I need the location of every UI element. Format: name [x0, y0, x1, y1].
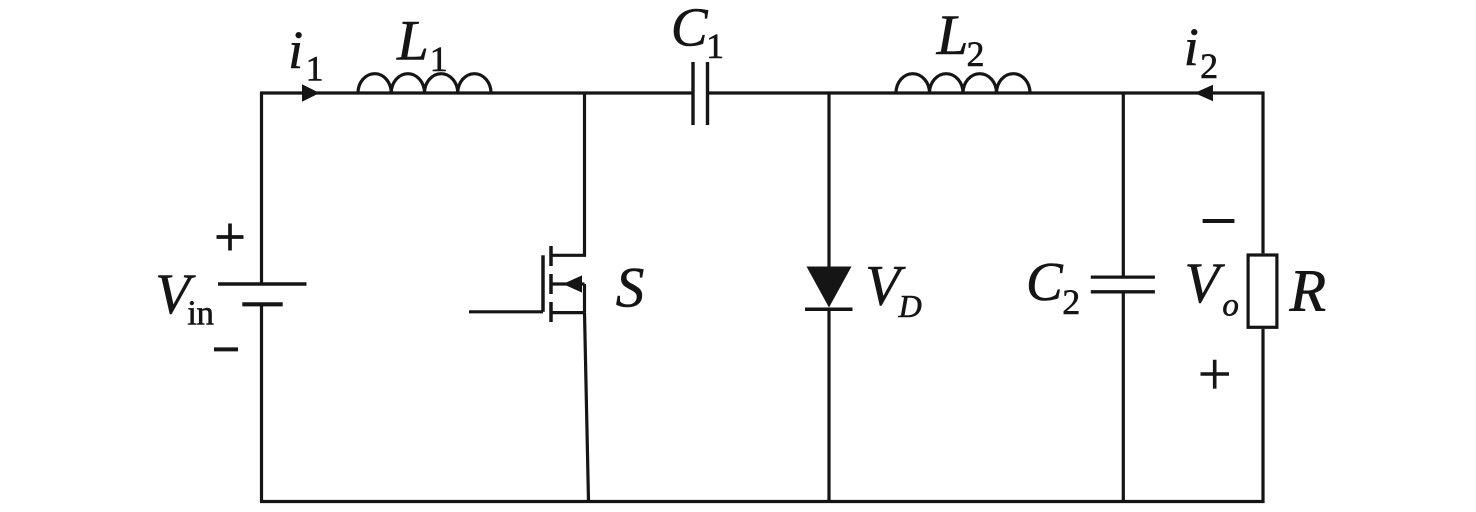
inductor L2 [896, 74, 1030, 93]
capacitor C2 bottom plate [1091, 290, 1155, 293]
svg-text:S: S [616, 257, 645, 320]
capacitor C2 top plate [1091, 275, 1155, 278]
wire diode cathode lead [827, 309, 830, 501]
svg-text:D: D [898, 288, 922, 324]
svg-text:i: i [1184, 17, 1199, 77]
capacitor C1 left plate [691, 62, 694, 125]
diode VD cathode bar [805, 308, 853, 312]
svg-text:2: 2 [1062, 282, 1080, 322]
svg-text:C: C [671, 0, 709, 57]
wire MOSFET source to bottom rail [585, 313, 589, 502]
svg-text:o: o [1222, 287, 1239, 323]
current arrow i1 [302, 84, 320, 102]
svg-text:L: L [936, 4, 969, 67]
wire top rail right of C1 + right rail upper (R lead) [708, 93, 1264, 253]
wire diode anode lead [827, 93, 830, 267]
current arrow i2 [1195, 85, 1214, 102]
minus sign Vin [214, 347, 238, 351]
inductor L1 [358, 74, 491, 93]
battery Vin short plate [242, 302, 282, 306]
capacitor C1 right plate [706, 62, 709, 125]
transistor S body contact [551, 282, 585, 285]
transistor S source contact [551, 311, 585, 314]
svg-text:R: R [1289, 258, 1327, 324]
svg-text:2: 2 [1200, 46, 1218, 86]
svg-text:C: C [1026, 251, 1064, 312]
svg-text:V: V [1185, 252, 1226, 315]
wire MOSFET drain lead with drain contact [551, 93, 585, 255]
svg-text:1: 1 [306, 49, 324, 89]
wire C2 lower lead [1122, 292, 1125, 502]
transistor S gate bar [541, 255, 545, 311]
wire left rail lower + bottom rail + right rail lower [262, 304, 1264, 501]
minus sign Vo [1203, 219, 1235, 223]
svg-text:2: 2 [967, 34, 985, 74]
diode VD triangle [807, 267, 852, 308]
transistor S source-body vertical [583, 284, 586, 313]
svg-text:i: i [288, 20, 303, 80]
wire C2 upper lead [1122, 93, 1125, 277]
svg-text:1: 1 [706, 26, 724, 66]
resistor R body [1248, 255, 1277, 327]
svg-text:L: L [396, 9, 429, 72]
transistor S channel bar bottom [549, 302, 553, 322]
wire top rail left + left rail upper (Vin + lead) [262, 93, 694, 284]
wire gate lead [469, 310, 543, 313]
battery Vin long plate [218, 282, 307, 285]
svg-text:1: 1 [430, 39, 448, 79]
svg-text:in: in [187, 293, 213, 332]
transistor S channel bar top [549, 246, 553, 266]
transistor S body arrow [563, 275, 582, 292]
transistor S channel bar middle [549, 274, 553, 294]
plus sign Vin [217, 224, 244, 251]
plus sign Vo [1201, 360, 1230, 389]
